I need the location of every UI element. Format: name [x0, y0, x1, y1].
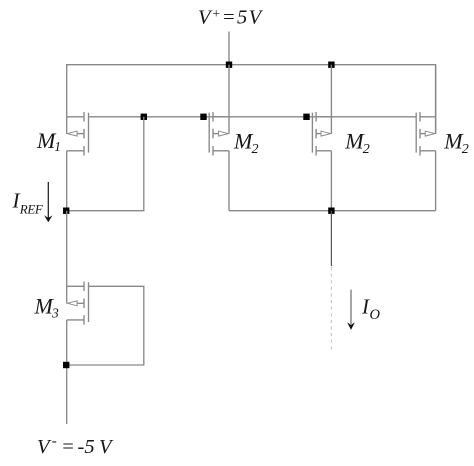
label M2 (second): [344, 129, 370, 158]
wire M1 drain to node A: [66, 151, 68, 211]
wire M3 drain down through node B to V-: [66, 320, 68, 424]
svg-text:-5: -5: [78, 436, 95, 458]
wire top +5V rail: [67, 65, 436, 134]
svg-text:O: O: [370, 307, 381, 323]
wire IO output (solid): [330, 211, 332, 266]
wire IO output (dashed continuation): [330, 267, 332, 352]
svg-text:+: +: [212, 6, 221, 21]
label IO: [361, 295, 381, 323]
junction output node / IO branch: [328, 208, 334, 214]
current arrow IO: [347, 290, 355, 330]
wire gate bus: [89, 116, 417, 118]
svg-text:5: 5: [237, 7, 247, 29]
transistor M3: [67, 282, 89, 325]
label M3: [34, 294, 60, 321]
transistor M2c: [416, 112, 435, 156]
svg-text:2: 2: [252, 142, 259, 157]
wire M2 drain: [228, 151, 230, 211]
wire M1 source/body (from rail): [66, 117, 68, 134]
wire node A to M3 source/body: [66, 211, 68, 304]
wire M3 gate wrap to drain node B: [67, 286, 144, 365]
label M2 (third): [443, 129, 469, 158]
svg-text:2: 2: [363, 142, 370, 157]
junction rail / M2 source: [226, 62, 232, 68]
label V- = -5 V: [37, 433, 114, 458]
svg-text:REF: REF: [19, 201, 44, 216]
junction gate bus / M2b gate: [303, 114, 309, 120]
svg-text:-: -: [52, 433, 57, 449]
svg-text:2: 2: [462, 142, 469, 157]
transistor M2b: [312, 112, 331, 156]
transistor M2a: [209, 112, 229, 156]
current arrow IREF: [44, 182, 52, 222]
junction rail / M2b source: [328, 62, 334, 68]
wire M2 source (rail to body): [228, 65, 230, 134]
wire output node (M2 drains): [229, 210, 436, 212]
svg-text:1: 1: [54, 139, 61, 154]
wire M2c source (rail to body): [435, 65, 437, 134]
node A junction (IREF node): [63, 208, 69, 214]
wire M2b source (rail to body): [330, 65, 332, 134]
junction gate bus / diode connection: [141, 114, 147, 120]
node B junction (M3 drain/gate): [63, 362, 69, 368]
wire M2c drain: [435, 151, 437, 211]
svg-text:3: 3: [51, 306, 59, 321]
transistor M1: [67, 112, 89, 156]
label V+ = 5 V: [198, 6, 264, 29]
junction gate bus / M2 gate: [200, 114, 206, 120]
wire M2b drain: [330, 151, 332, 211]
svg-text:=: =: [222, 7, 236, 29]
label M1: [36, 128, 61, 154]
svg-text:=: =: [61, 436, 75, 458]
label IREF: [12, 189, 44, 217]
label M2 (first): [233, 129, 259, 158]
wire diode connection node A to gate bus: [67, 117, 144, 211]
wire V+ supply lead: [228, 32, 230, 65]
